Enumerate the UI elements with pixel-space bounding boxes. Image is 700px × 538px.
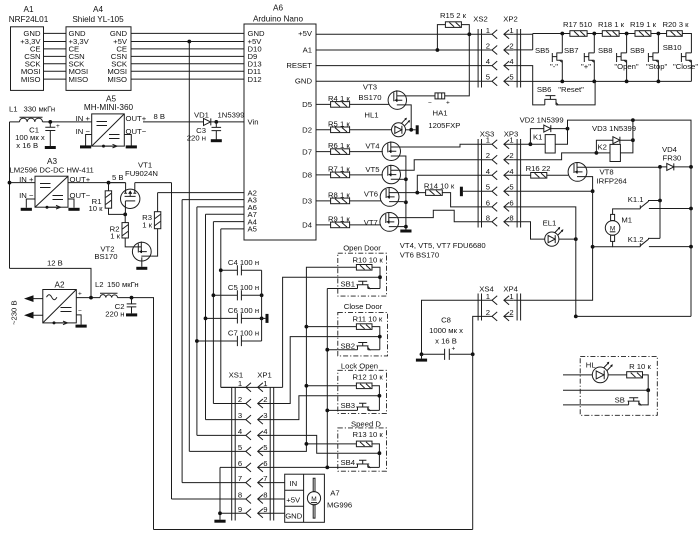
svg-text:6: 6	[263, 459, 267, 468]
wire resistor chain top	[533, 34, 692, 53]
resistor R16 22	[513, 164, 568, 178]
svg-text:2: 2	[486, 151, 490, 160]
connector XS1 XP1	[221, 371, 283, 521]
module A6 Arduino Nano	[244, 4, 316, 240]
svg-text:A6: A6	[273, 4, 283, 13]
svg-text:+5V: +5V	[298, 29, 313, 38]
svg-text:1N5399: 1N5399	[218, 111, 245, 120]
svg-text:MISO: MISO	[107, 75, 127, 84]
resistor R3 1k	[142, 193, 161, 257]
svg-text:+: +	[78, 291, 82, 298]
node M1 bottom tie	[591, 245, 595, 249]
svg-text:Arduino Nano: Arduino Nano	[253, 15, 304, 24]
wire A3 OUT- to ground	[68, 199, 74, 208]
transistor VT1 FU9024N	[121, 161, 158, 215]
inductor L1 330 mkGn	[9, 104, 55, 122]
svg-text:SB8: SB8	[598, 46, 613, 55]
module A4 Shield YL-105	[66, 5, 131, 90]
wire stub to ground bar	[262, 317, 266, 319]
svg-text:2: 2	[509, 42, 513, 51]
relay contact K1.2	[628, 235, 691, 247]
wire VT8 drain to VD4	[585, 166, 660, 168]
wire A7 row	[206, 214, 245, 419]
transistor VT4 FDU6680	[365, 141, 400, 160]
svg-text:A1: A1	[303, 46, 312, 55]
node HL1 cathode	[409, 128, 413, 132]
svg-text:"Close": "Close"	[673, 62, 698, 71]
svg-text:SB1: SB1	[340, 279, 355, 288]
node VT7 source	[404, 225, 408, 229]
svg-text:2: 2	[486, 308, 490, 317]
resistor R13 10k	[356, 441, 372, 447]
svg-text:VT4: VT4	[365, 142, 380, 151]
diode VD3 1N5399	[592, 124, 636, 153]
node K1.1 right rail	[689, 207, 693, 211]
svg-text:1205FXP: 1205FXP	[428, 121, 460, 130]
wire A4 row	[213, 222, 244, 404]
wire C8 rail to bottom 12V	[472, 354, 474, 529]
ground A5 in	[80, 145, 91, 148]
svg-text:A7: A7	[330, 489, 339, 498]
svg-text:1000 мк х: 1000 мк х	[429, 326, 463, 335]
node C2	[130, 296, 134, 300]
node Vin	[214, 120, 218, 124]
svg-text:VT4, VT5, VT7 FDU6680: VT4, VT5, VT7 FDU6680	[400, 241, 486, 250]
svg-text:150 мкГн: 150 мкГн	[107, 280, 139, 289]
transistor VT2 BS170	[94, 242, 151, 267]
diode VD1 1N5399	[194, 111, 244, 126]
node +5V rail tap	[187, 40, 191, 44]
ground A3 out	[68, 208, 79, 211]
svg-text:A5: A5	[248, 225, 257, 234]
wire XP2 pin1 chain feed	[513, 34, 532, 50]
svg-text:5 В: 5 В	[112, 173, 124, 182]
node 5V	[107, 181, 111, 185]
ground common sources	[400, 230, 411, 233]
svg-text:D8: D8	[302, 171, 312, 180]
svg-text:MG996: MG996	[327, 500, 352, 509]
svg-text:Close Door: Close Door	[344, 302, 383, 311]
wire left rail down to 12V corner	[9, 122, 11, 269]
wire VT7 source	[397, 226, 406, 228]
wire legend mid	[563, 389, 648, 391]
svg-text:SB: SB	[615, 395, 625, 404]
svg-text:MISO: MISO	[69, 75, 89, 84]
input arrows ~230V	[10, 295, 43, 325]
svg-text:A1: A1	[23, 5, 33, 14]
svg-text:5: 5	[263, 443, 267, 452]
box Speed D	[305, 419, 387, 471]
svg-text:~230 В: ~230 В	[10, 300, 19, 325]
node L1/C1	[48, 120, 52, 124]
svg-text:LM2596 DC-DC HW-411: LM2596 DC-DC HW-411	[10, 166, 94, 175]
svg-text:8: 8	[238, 491, 242, 500]
svg-text:12 В: 12 В	[47, 258, 63, 267]
module A5 MH-MINI-360	[76, 95, 147, 148]
svg-text:4: 4	[263, 427, 268, 436]
relay coil K1	[533, 129, 568, 153]
node SB8 tap	[625, 32, 629, 36]
button SB9 "Stop"	[630, 34, 668, 82]
XS1 pin rows (chevrons, XP arrows, numbers)	[238, 379, 268, 518]
svg-text:RESET: RESET	[286, 61, 312, 70]
transistor VT7 FDU6680	[364, 212, 399, 231]
wire ground bar to XS3 pin5	[463, 190, 492, 192]
svg-text:R16 22: R16 22	[526, 164, 551, 173]
svg-text:L2: L2	[95, 280, 104, 289]
svg-text:2: 2	[509, 151, 513, 160]
svg-text:M: M	[311, 496, 316, 503]
wire A2 plus	[76, 297, 100, 299]
svg-text:Shield YL-105: Shield YL-105	[72, 15, 124, 24]
svg-text:5: 5	[509, 183, 513, 192]
button SB8 "Open"	[598, 34, 639, 82]
svg-text:5: 5	[509, 73, 513, 82]
node SB7 bottom	[592, 80, 596, 84]
relay contact K1.1	[628, 195, 691, 209]
wire VT5 source	[399, 178, 406, 180]
resistor R14 10k	[424, 182, 455, 196]
wire HL1 to ground bar	[406, 129, 416, 131]
resistor R8 1k	[316, 190, 381, 203]
button SB6 "Reset"	[537, 81, 595, 105]
wire XP3 pin5 motor return	[513, 190, 592, 192]
svg-text:C8: C8	[441, 316, 451, 325]
resistor R1 10k	[88, 183, 125, 215]
svg-text:8: 8	[486, 213, 490, 222]
resistor R6 1k	[316, 141, 383, 154]
ground HL1	[416, 125, 419, 134]
wire A2 minus to ground	[76, 315, 81, 325]
svg-text:K1: K1	[533, 132, 542, 141]
wire XP3 pin2 to K2	[513, 153, 596, 160]
resistor R4 1k	[316, 94, 389, 107]
svg-text:SB7: SB7	[564, 46, 579, 55]
node VT8 source	[591, 189, 595, 193]
svg-text:R18 1 к: R18 1 к	[598, 20, 625, 29]
svg-text:SB9: SB9	[630, 46, 645, 55]
svg-text:6: 6	[509, 198, 513, 207]
svg-text:SB4: SB4	[340, 458, 355, 467]
module A1 NRF24L01	[9, 5, 49, 90]
node SB9 tap	[657, 32, 661, 36]
svg-text:R11 10 к: R11 10 к	[353, 315, 383, 324]
ground C2	[126, 313, 137, 316]
svg-text:FU9024N: FU9024N	[125, 169, 158, 178]
wire A5 row	[221, 229, 244, 387]
inductor L2 150 mkGn	[95, 280, 139, 297]
wire 5V to VT1 drain	[109, 182, 126, 184]
wire A2 row	[158, 192, 244, 194]
ground C bank	[266, 314, 269, 323]
svg-text:R20 3 к: R20 3 к	[662, 20, 689, 29]
svg-text:1: 1	[486, 292, 490, 301]
node VD4 left	[658, 165, 662, 169]
svg-text:C5 100 н: C5 100 н	[228, 283, 259, 292]
resistor R17 510	[563, 20, 592, 36]
wires A1 to A4	[44, 33, 67, 79]
svg-text:х 16 В: х 16 В	[435, 336, 457, 345]
wire A3 row	[182, 200, 244, 483]
node VD4 right	[689, 165, 693, 169]
capacitor C1 100mk x16V	[15, 122, 60, 150]
svg-text:SB5: SB5	[535, 46, 550, 55]
svg-text:HL: HL	[586, 361, 597, 370]
resistor R9 1k	[316, 214, 381, 227]
wire XP1 pin6 buttons common	[267, 466, 358, 468]
node HA1 +5V	[467, 32, 471, 36]
ground XS1	[214, 520, 225, 523]
wire inner contact rail	[659, 167, 661, 239]
svg-text:Lock Open: Lock Open	[341, 362, 378, 371]
box Lock Open	[305, 362, 387, 414]
wire VD1 to Arduino Vin	[211, 121, 244, 123]
ground C1	[45, 146, 56, 149]
svg-text:"+": "+"	[581, 62, 591, 71]
svg-text:IN: IN	[290, 479, 298, 488]
diode VD2 1N5399	[520, 116, 568, 145]
svg-text:1: 1	[509, 26, 513, 35]
svg-text:R12 10 к: R12 10 к	[353, 373, 384, 382]
svg-text:"-": "-"	[550, 62, 558, 71]
svg-text:4: 4	[486, 57, 491, 66]
transistor VT6 BS170	[364, 187, 399, 206]
module A3 LM2596 DC-DC HW-411	[10, 157, 94, 209]
wire VT3 drain to HA1	[405, 95, 435, 97]
capacitor C5 100n	[212, 283, 264, 301]
svg-text:BS170: BS170	[358, 93, 381, 102]
svg-text:FR30: FR30	[663, 153, 682, 162]
svg-text:−: −	[428, 100, 432, 107]
svg-text:7: 7	[263, 474, 267, 483]
svg-text:+5V: +5V	[286, 495, 301, 504]
resistor R19 1k	[630, 20, 657, 36]
svg-text:D12: D12	[248, 75, 262, 84]
svg-text:NRF24L01: NRF24L01	[9, 15, 49, 24]
svg-text:VD3 1N5399: VD3 1N5399	[592, 124, 636, 133]
capacitor C8 1000mk x16V	[422, 316, 473, 360]
svg-text:MH-MINI-360: MH-MINI-360	[84, 103, 134, 112]
wire XP1 pin5 pull-up rail	[267, 267, 356, 451]
wire VT4 drain to XS3 pin1	[399, 144, 492, 147]
node SB7 tap	[592, 32, 596, 36]
relay coil K2	[596, 120, 633, 161]
resistor R5 1k	[316, 119, 392, 132]
svg-text:1: 1	[509, 292, 513, 301]
svg-text:R14 10 к: R14 10 к	[424, 182, 455, 191]
ground bar XS3 pin5	[460, 187, 463, 197]
svg-text:2: 2	[486, 42, 490, 51]
wire A6 row	[197, 207, 244, 436]
resistor R20 3k	[662, 20, 689, 36]
wire bottom 12V run	[154, 529, 473, 531]
module A7 MG996 servo	[285, 474, 353, 522]
wire VT6 drain to R14 and riser to XS3 pin4	[397, 175, 492, 192]
node K2 left	[595, 151, 599, 155]
node C8 plus rail	[471, 352, 475, 356]
LED EL1	[543, 218, 564, 246]
node A3 IN+	[8, 181, 12, 185]
ground VT2	[136, 267, 147, 270]
svg-text:D4: D4	[302, 221, 313, 230]
svg-text:х 16 В: х 16 В	[16, 141, 38, 150]
wires XP1 pins 7 8 9 to servo A7	[267, 483, 285, 514]
svg-text:R13 10 к: R13 10 к	[353, 430, 384, 439]
svg-text:6: 6	[238, 459, 242, 468]
wire SB bottoms rail	[326, 289, 328, 468]
wire XP1 pin3 to Lock Open	[267, 396, 379, 420]
capacitor C2 220n	[105, 298, 136, 319]
svg-text:9: 9	[263, 505, 267, 514]
wire +5V rail down to XS1 pin5	[188, 42, 190, 452]
wire VT5 drain to XS3 pin2	[399, 160, 492, 171]
motor M1	[593, 209, 641, 247]
node K1.2 right rail	[689, 245, 693, 249]
svg-text:IN +: IN +	[76, 114, 91, 123]
svg-text:VT7: VT7	[364, 218, 378, 227]
svg-text:D3: D3	[302, 197, 312, 206]
svg-text:220 н: 220 н	[105, 310, 124, 319]
connector XS2 XP2	[473, 15, 520, 88]
svg-text:10 к: 10 к	[88, 204, 103, 213]
resistor R2 1k	[110, 214, 133, 247]
node XP4 pin2 tie	[574, 315, 578, 319]
wire A3 IN- to ground	[26, 199, 35, 208]
svg-text:+: +	[56, 123, 60, 130]
svg-text:VD1: VD1	[194, 111, 209, 120]
box Open Door	[327, 243, 386, 296]
wire XP1 pin2 riser to Close Door	[267, 337, 380, 404]
svg-text:BS170: BS170	[94, 252, 117, 261]
wire XP2 pin4 to SB6	[513, 66, 545, 105]
svg-text:8: 8	[263, 491, 267, 500]
svg-text:8 В: 8 В	[154, 112, 166, 121]
resistor R18 1k	[598, 20, 625, 36]
svg-text:R 10 к: R 10 к	[629, 362, 651, 371]
node VD3 top	[631, 118, 635, 122]
legend dash-dot box	[563, 356, 657, 415]
capacitor C6 100n	[204, 306, 264, 324]
svg-text:3: 3	[238, 411, 242, 420]
svg-text:K1.1: K1.1	[628, 195, 644, 204]
wire VT6 source	[397, 201, 406, 204]
box Close Door	[305, 302, 388, 356]
node C8 minus	[420, 352, 424, 356]
resistor R10 10k	[356, 265, 372, 271]
svg-text:Vin: Vin	[248, 118, 259, 127]
wire VT7 drain staircase to XS3 pin8	[397, 210, 492, 222]
wire EL1 to pin6 rail	[559, 238, 576, 240]
node VT1 gate	[123, 213, 127, 217]
wire XP2 pin5 buttons common	[513, 80, 691, 82]
button SB5 "-"	[535, 34, 562, 82]
svg-text:9: 9	[238, 505, 242, 514]
wire source rail down to XP4 pin1	[513, 191, 592, 300]
wire XP1 pin1 riser to Open Door	[283, 277, 380, 387]
svg-text:D5: D5	[302, 100, 312, 109]
wire A3 IN+	[10, 182, 36, 184]
wire XS4 pin2 to C8 plus	[473, 316, 492, 354]
buzzer HA1 1205FXP	[428, 93, 460, 130]
svg-text:IRFP264: IRFP264	[597, 176, 628, 185]
resistor R11 10k	[356, 324, 372, 330]
wire L2 to 12V rail	[118, 298, 154, 530]
wire VT4 source to common rail	[399, 156, 406, 230]
wire VT1 source to rail	[135, 182, 172, 184]
svg-text:C4 100 н: C4 100 н	[228, 258, 259, 267]
svg-text:−: −	[78, 308, 82, 315]
wire RESET row to XS2 pin4	[316, 65, 492, 67]
svg-text:MISO: MISO	[21, 75, 41, 84]
svg-text:R10 10 к: R10 10 к	[353, 255, 384, 264]
svg-text:XS2: XS2	[473, 15, 488, 24]
wire HA1 plus to +5V node	[445, 34, 470, 96]
wire 12V row	[10, 268, 92, 297]
svg-text:C7 100 н: C7 100 н	[228, 329, 259, 338]
wire VT8 source to motor common	[585, 177, 593, 192]
svg-text:6: 6	[486, 198, 490, 207]
transistor VT3 BS170	[358, 83, 406, 110]
svg-text:1: 1	[509, 136, 513, 145]
connector XS3 XP3	[478, 129, 520, 227]
svg-text:R15 2 к: R15 2 к	[440, 11, 467, 20]
wire +5V right row to XS2 pin1	[316, 33, 492, 35]
svg-text:A4: A4	[93, 5, 103, 14]
node VT6 drain	[415, 191, 419, 195]
resistor R7 1k	[316, 164, 383, 177]
svg-text:+: +	[452, 346, 456, 353]
wire A5 IN- to ground	[86, 135, 92, 146]
svg-text:VD2 1N5399: VD2 1N5399	[520, 116, 564, 125]
svg-text:5: 5	[486, 183, 490, 192]
capacitor C7 100n	[195, 329, 262, 347]
wire XP4 pin2 to right rail	[576, 315, 691, 317]
svg-text:"Open": "Open"	[614, 62, 639, 71]
wire A3 OUT+ 5V node	[68, 182, 125, 184]
svg-text:M1: M1	[621, 216, 632, 225]
node A2 out	[89, 296, 93, 300]
svg-text:VT5: VT5	[365, 165, 379, 174]
svg-text:A2: A2	[54, 280, 64, 289]
svg-text:GND: GND	[285, 511, 303, 520]
svg-text:XP2: XP2	[503, 15, 518, 24]
svg-text:1: 1	[263, 379, 267, 388]
svg-text:1: 1	[238, 379, 242, 388]
svg-text:2: 2	[509, 308, 513, 317]
svg-text:SB6: SB6	[537, 85, 552, 94]
svg-text:+: +	[446, 100, 450, 107]
svg-text:2: 2	[238, 395, 242, 404]
svg-text:K1.2: K1.2	[628, 235, 644, 244]
wire C4-C7 common right rail	[261, 270, 263, 341]
transistor VT8 IRFP264	[568, 162, 627, 185]
svg-text:1: 1	[486, 136, 490, 145]
svg-text:SB2: SB2	[340, 341, 355, 350]
wire A1 row to XS2 pin2	[316, 49, 492, 51]
svg-text:5: 5	[486, 73, 490, 82]
svg-text:"Stop": "Stop"	[646, 62, 668, 71]
node SB8 bottom	[625, 80, 629, 84]
wires A4 to A6 Arduino	[131, 33, 244, 79]
capacitor C3 220n	[187, 122, 221, 143]
svg-text:D2: D2	[302, 126, 312, 135]
wire GND row to XS2 pin5	[316, 80, 492, 82]
ground A5 out	[126, 145, 137, 148]
svg-text:D7: D7	[302, 147, 312, 156]
wire XP1 pin4 to Speed D	[267, 435, 379, 453]
svg-text:1: 1	[486, 26, 490, 35]
svg-text:Open Door: Open Door	[343, 243, 381, 252]
